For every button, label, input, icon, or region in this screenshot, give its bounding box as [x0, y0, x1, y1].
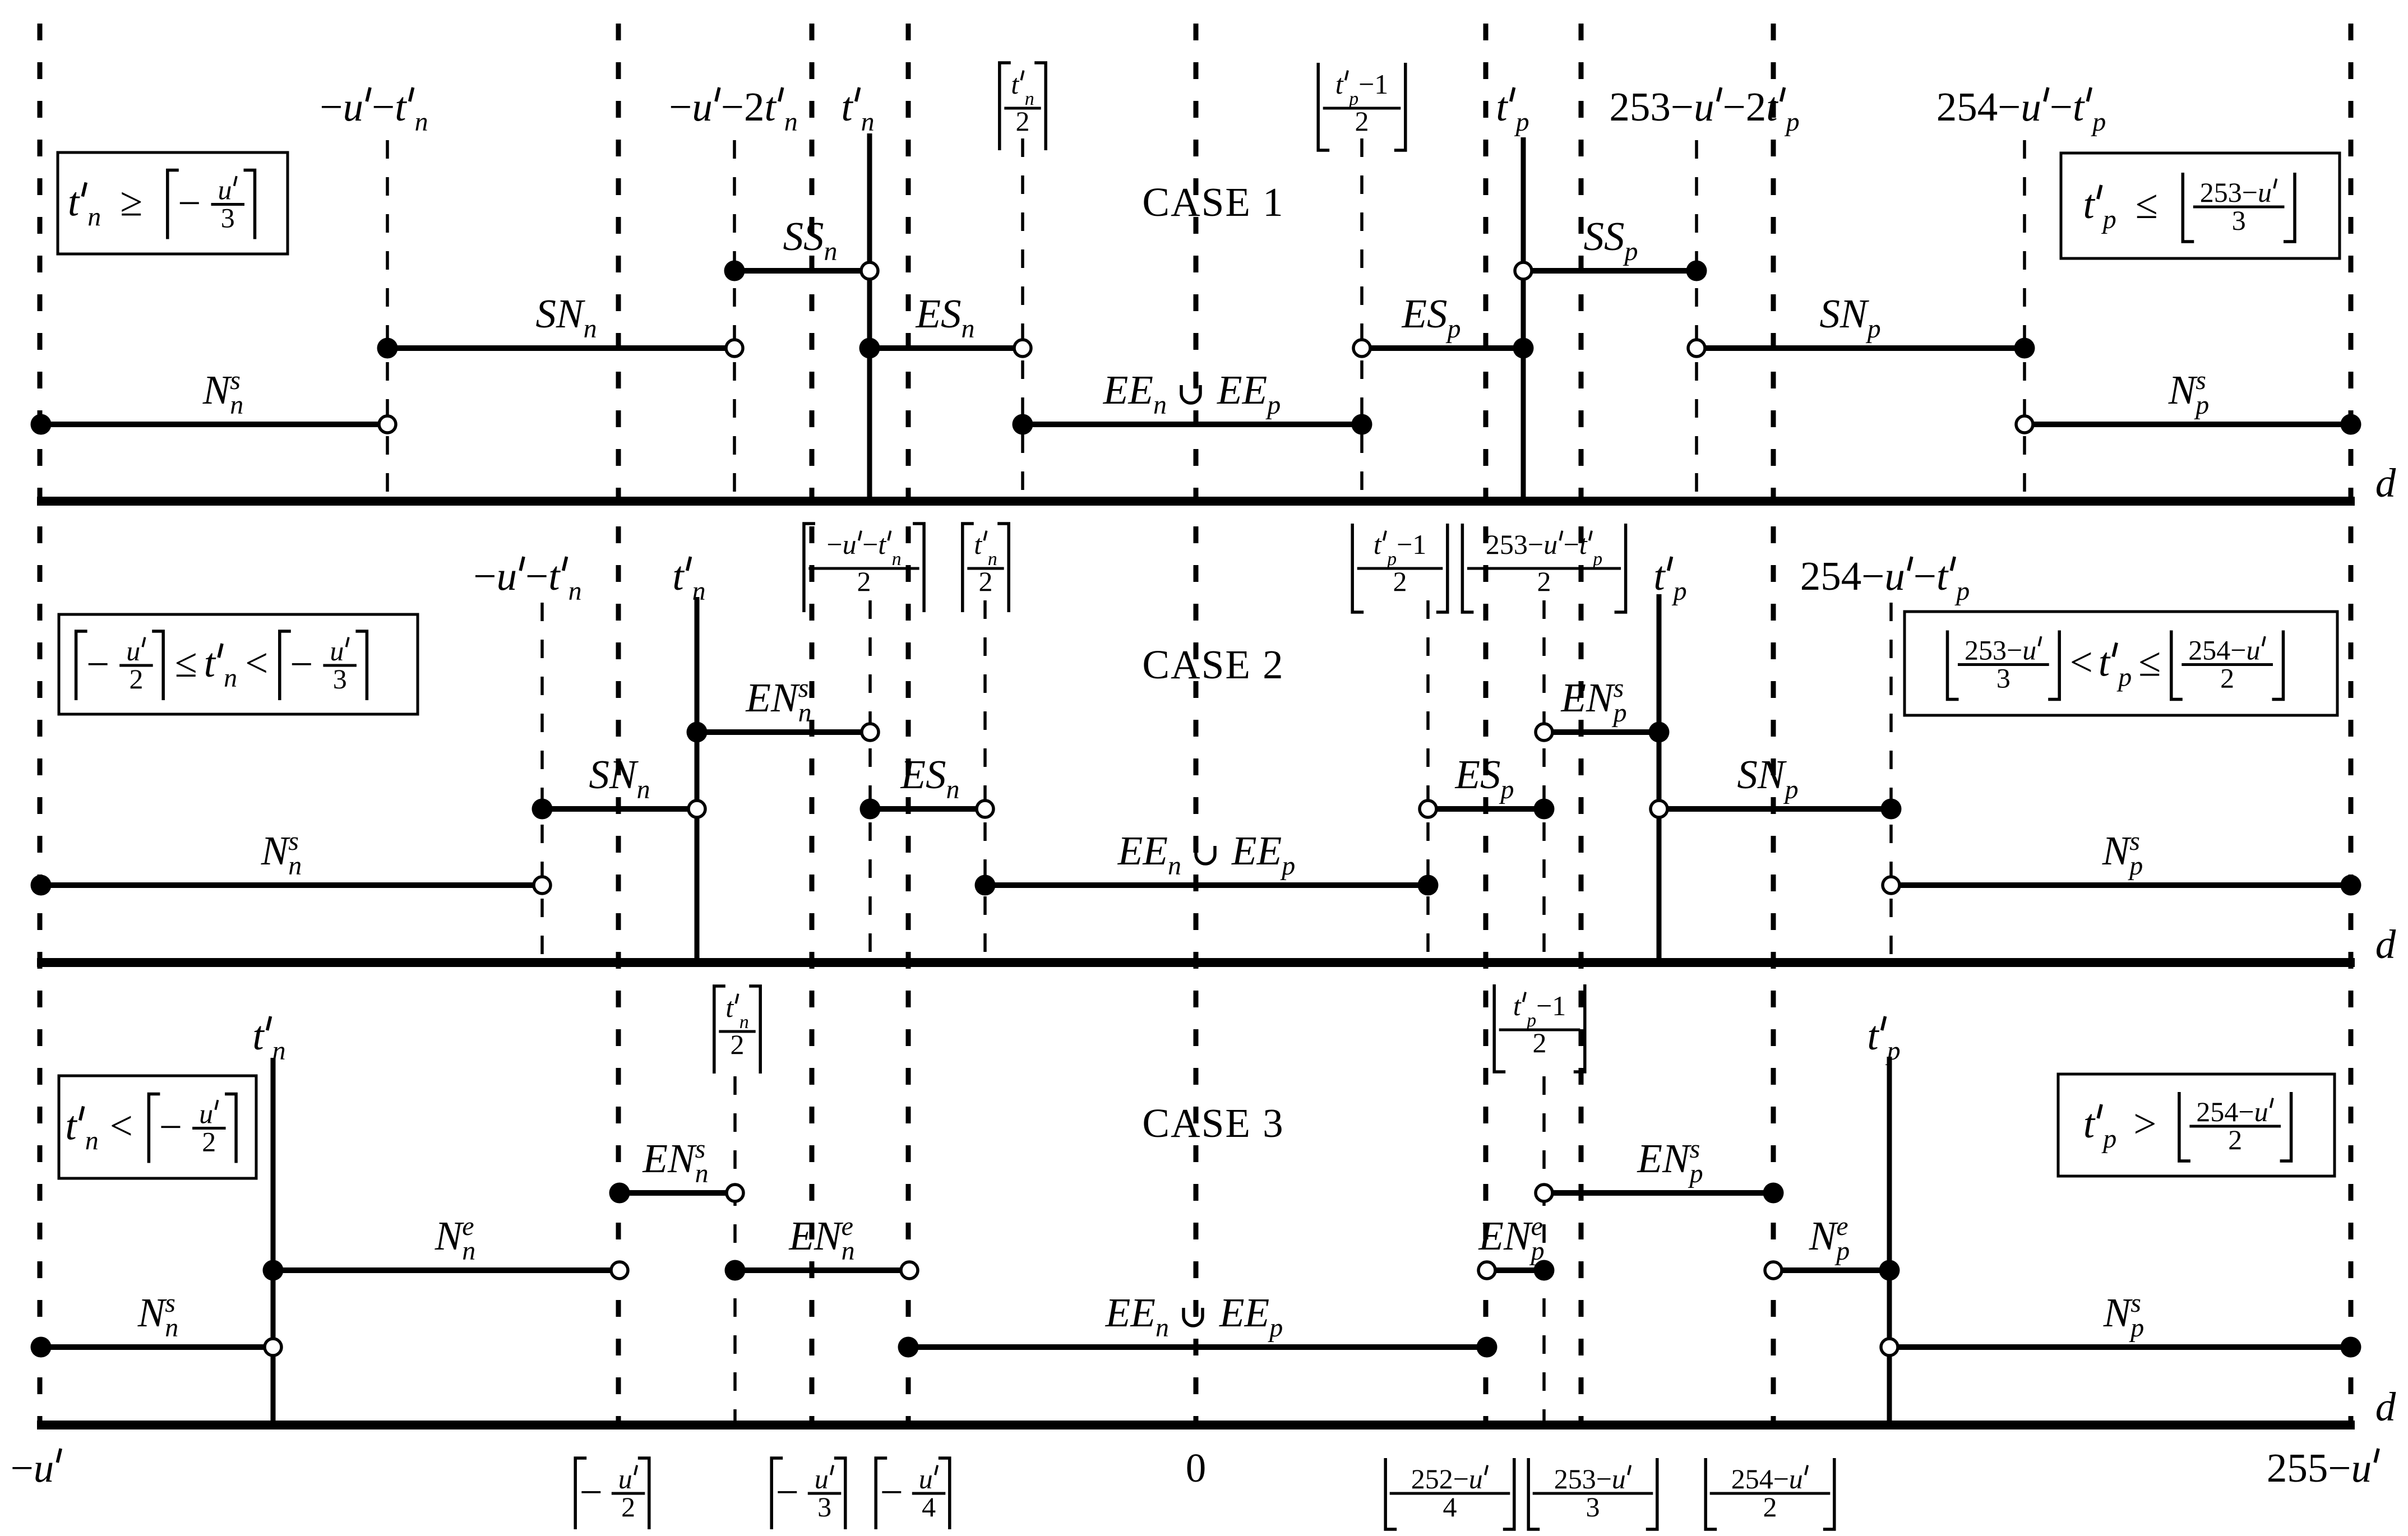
svg-text:u: u — [1789, 1463, 1803, 1495]
svg-text:2: 2 — [1016, 105, 1030, 137]
svg-text:p: p — [2194, 390, 2209, 420]
svg-text:S: S — [803, 214, 824, 259]
svg-text:t: t — [1653, 553, 1666, 599]
svg-text:n: n — [415, 107, 428, 137]
svg-text:3: 3 — [221, 202, 235, 234]
svg-text:N: N — [814, 1213, 844, 1259]
svg-text:2: 2 — [744, 84, 765, 129]
svg-text:u: u — [2254, 1096, 2268, 1127]
svg-text:S: S — [535, 291, 556, 336]
svg-text:254: 254 — [2188, 635, 2230, 666]
svg-text:CASE 1: CASE 1 — [1142, 179, 1284, 225]
svg-text:1: 1 — [1374, 68, 1388, 100]
dashed line ceil(t'_n/2) case1 — [1021, 138, 1024, 501]
svg-text:3: 3 — [817, 1491, 831, 1523]
svg-text:E: E — [1242, 367, 1268, 413]
svg-text:2: 2 — [202, 1126, 216, 1158]
interval EN^s_p case3 — [1536, 1183, 1784, 1204]
interval SN_n case1 — [377, 338, 743, 359]
svg-text:N: N — [1757, 752, 1787, 797]
dashed line 253-u'-2t'_p case1 — [1695, 140, 1698, 501]
svg-text:t: t — [841, 84, 853, 129]
svg-text:−: − — [2328, 1445, 2351, 1491]
svg-text:p: p — [1514, 107, 1529, 137]
svg-text:N: N — [2103, 1290, 2133, 1335]
svg-text:N: N — [2102, 828, 2132, 873]
label ES_p case1 — [1402, 291, 1461, 344]
svg-text:t: t — [395, 84, 407, 129]
svg-text:S: S — [1584, 214, 1605, 259]
label EN^s_p case3 — [1637, 1134, 1703, 1188]
svg-text:p: p — [2101, 205, 2116, 234]
svg-text:u: u — [2021, 84, 2041, 129]
svg-text:t: t — [1011, 68, 1019, 100]
svg-text:≥: ≥ — [120, 179, 142, 225]
svg-text:−: − — [178, 181, 201, 226]
label SS_p case1 — [1584, 214, 1638, 266]
svg-text:p: p — [1672, 576, 1687, 606]
svg-text:n: n — [462, 1236, 475, 1266]
svg-text:N: N — [261, 828, 291, 873]
svg-text:t: t — [252, 1013, 265, 1058]
grid line d=ceil(-u'/2) — [616, 24, 621, 1425]
svg-text:p: p — [1612, 698, 1627, 728]
svg-text:t: t — [1335, 68, 1344, 100]
svg-text:E: E — [1402, 291, 1427, 336]
svg-text:253: 253 — [1486, 529, 1528, 560]
svg-text:254: 254 — [1800, 553, 1862, 599]
svg-text:n: n — [224, 663, 237, 693]
dashed line floor((t'_p-1)/2) case1 — [1360, 138, 1364, 501]
svg-text:t: t — [1867, 1013, 1879, 1058]
interval ES_n case2 — [860, 799, 994, 820]
svg-text:u: u — [1884, 553, 1905, 599]
svg-text:n: n — [842, 1236, 855, 1266]
svg-text:N: N — [556, 291, 586, 336]
label N^s_n case2 — [261, 826, 302, 881]
label N^s_p case2 — [2102, 826, 2143, 881]
svg-text:2: 2 — [979, 566, 993, 597]
svg-text:E: E — [1142, 828, 1168, 873]
svg-text:CASE 2: CASE 2 — [1142, 642, 1284, 687]
svg-text:t: t — [2073, 84, 2085, 129]
dashed line -u'-2t'_n case1 — [733, 140, 736, 501]
svg-text:n: n — [288, 851, 302, 881]
condition box right case3 — [2058, 1074, 2335, 1176]
label SN_n case1 — [535, 291, 597, 344]
svg-text:n: n — [784, 107, 798, 137]
svg-text:≤: ≤ — [2138, 640, 2161, 685]
grid line d=0 — [1194, 24, 1199, 1425]
label floor((253-u'-t'_p)/2) case2 — [1462, 524, 1473, 612]
axis value label ceil(-u'/2) — [575, 1458, 586, 1529]
svg-text:n: n — [637, 775, 650, 804]
svg-text:2: 2 — [731, 1029, 745, 1060]
svg-text:≤: ≤ — [175, 640, 197, 686]
svg-text:−: − — [1564, 529, 1579, 560]
svg-text:3: 3 — [1996, 663, 2010, 694]
svg-text:E: E — [788, 1213, 814, 1259]
axis value label floor((253-u')/3) — [1528, 1458, 1540, 1529]
interval N^e_n case3 — [263, 1260, 628, 1281]
svg-text:−: − — [2230, 635, 2246, 666]
svg-text:2: 2 — [1393, 566, 1407, 597]
label EN^s_n case2 — [745, 673, 811, 728]
interval N^s_p case3 — [1881, 1337, 2361, 1358]
svg-text:−: − — [1358, 68, 1374, 100]
threshold line t'_p case2 — [1657, 594, 1662, 963]
svg-text:E: E — [1244, 1290, 1270, 1335]
interval N^s_p case2 — [1883, 875, 2361, 896]
condition box right case2 — [1905, 612, 2337, 715]
interval SN_p case2 — [1651, 799, 1902, 820]
svg-text:4: 4 — [1443, 1491, 1457, 1523]
svg-text:n: n — [1156, 1313, 1169, 1343]
svg-text:0: 0 — [1186, 1445, 1207, 1491]
svg-text:E: E — [1256, 828, 1282, 873]
axis value label floor((254-u')/2) — [1706, 1458, 1717, 1529]
svg-text:−: − — [1773, 1463, 1789, 1495]
svg-text:S: S — [1480, 752, 1501, 797]
dashed line ceil((-u'-t'_n)/2) case2 — [868, 600, 872, 963]
svg-text:−: − — [880, 1469, 903, 1515]
svg-text:N: N — [770, 675, 801, 720]
svg-text:p: p — [2129, 1313, 2144, 1343]
svg-text:t: t — [68, 179, 80, 225]
svg-text:t: t — [878, 529, 886, 560]
interval EN^s_n case2 — [687, 722, 879, 743]
svg-text:u: u — [34, 1445, 54, 1491]
svg-text:t: t — [1496, 84, 1508, 129]
svg-text:t: t — [65, 1103, 77, 1149]
interval N^s_n case3 — [31, 1337, 282, 1358]
svg-text:2: 2 — [1763, 1491, 1777, 1523]
label EN^s_n case3 — [642, 1134, 708, 1188]
svg-text:d: d — [2375, 460, 2396, 506]
svg-text:t: t — [548, 553, 561, 599]
svg-text:−: − — [1861, 553, 1884, 599]
interval SN_p case1 — [1688, 338, 2035, 359]
svg-text:N: N — [667, 1136, 697, 1181]
svg-text:E: E — [745, 675, 771, 720]
svg-text:−: − — [1998, 84, 2021, 129]
svg-text:254: 254 — [1731, 1463, 1773, 1495]
svg-text:n: n — [798, 698, 812, 728]
svg-text:u: u — [343, 84, 364, 129]
label ceil((-u'-t'_n)/2) case2 — [804, 524, 815, 612]
condition box right case1 — [2061, 153, 2340, 258]
axis d case 2 — [37, 958, 2355, 967]
label ceil(t'_n/2) case3 — [714, 986, 725, 1074]
svg-text:1: 1 — [1412, 529, 1426, 560]
threshold line t'_n case1 — [867, 133, 872, 501]
label SN_p case1 — [1819, 291, 1880, 344]
svg-text:p: p — [1280, 851, 1295, 881]
svg-text:2: 2 — [2220, 663, 2234, 694]
svg-text:4: 4 — [922, 1491, 936, 1523]
svg-text:N: N — [1809, 1213, 1839, 1259]
svg-text:E: E — [916, 291, 941, 336]
svg-text:p: p — [1268, 1313, 1283, 1343]
interval SN_n case2 — [532, 799, 706, 820]
interval N^e_p case3 — [1765, 1260, 1900, 1281]
label EN^s_p case2 — [1560, 673, 1626, 728]
svg-text:254: 254 — [2196, 1096, 2238, 1127]
svg-text:u: u — [2247, 635, 2261, 666]
interval N^s_p case1 — [2016, 414, 2361, 435]
svg-text:−: − — [2007, 635, 2022, 666]
svg-text:u: u — [2351, 1445, 2372, 1491]
svg-text:n: n — [1153, 390, 1167, 420]
svg-text:<: < — [245, 640, 268, 686]
svg-text:N: N — [1586, 675, 1616, 720]
svg-text:n: n — [962, 314, 975, 344]
svg-text:S: S — [1819, 291, 1840, 336]
svg-text:E: E — [1560, 675, 1586, 720]
svg-text:254: 254 — [1936, 84, 1998, 129]
grid line d=floor((252-u')/4) — [1483, 24, 1489, 1425]
svg-text:<: < — [2070, 640, 2093, 685]
interval EE_n u EE_p case3 — [898, 1337, 1498, 1358]
svg-text:u: u — [815, 1463, 829, 1495]
label EE_n u EE_p case1 — [1103, 367, 1281, 420]
svg-text:3: 3 — [333, 663, 347, 695]
svg-text:3: 3 — [2232, 205, 2246, 236]
svg-text:u: u — [199, 1098, 213, 1130]
svg-text:p: p — [2128, 851, 2143, 881]
svg-text:2: 2 — [621, 1491, 635, 1523]
svg-text:t: t — [1579, 529, 1588, 560]
svg-text:255: 255 — [2267, 1445, 2328, 1491]
svg-text:u: u — [618, 1463, 632, 1495]
svg-text:>: > — [2133, 1101, 2156, 1146]
svg-text:u: u — [2258, 177, 2272, 208]
svg-text:u: u — [126, 635, 140, 667]
threshold line t'_n case3 — [271, 1058, 276, 1425]
svg-text:n: n — [272, 1036, 286, 1066]
svg-text:p: p — [1866, 314, 1881, 344]
svg-text:t: t — [672, 553, 685, 599]
label N^s_n case3 — [137, 1288, 179, 1343]
svg-text:N: N — [137, 1290, 168, 1335]
svg-text:−: − — [1596, 1463, 1612, 1495]
svg-text:E: E — [1455, 752, 1481, 797]
svg-text:E: E — [1219, 1290, 1245, 1335]
svg-text:2: 2 — [2228, 1124, 2242, 1155]
label ceil(t'_n/2) case1 — [1000, 63, 1011, 150]
svg-text:p: p — [1785, 107, 1800, 137]
svg-text:p: p — [1688, 1159, 1703, 1188]
svg-text:u: u — [1612, 1463, 1626, 1495]
grid line d=ceil(-u'/4) — [906, 24, 911, 1425]
svg-text:t: t — [1936, 553, 1949, 599]
svg-text:252: 252 — [1411, 1463, 1453, 1495]
svg-text:u: u — [2022, 635, 2036, 666]
svg-text:−: − — [721, 84, 744, 129]
svg-text:n: n — [892, 549, 902, 570]
grid line d=-u' — [38, 24, 43, 1425]
dashed line 254-u'-t'_p case2 — [1889, 603, 1893, 963]
svg-text:253: 253 — [2200, 177, 2242, 208]
grid line d=ceil(-u'/3) — [810, 24, 815, 1425]
svg-text:2: 2 — [130, 663, 144, 695]
label SS_n case1 — [783, 214, 838, 266]
label ES_n case2 — [900, 752, 960, 804]
svg-text:−: − — [11, 1445, 34, 1491]
axis value label ceil(-u'/4) — [876, 1458, 887, 1529]
condition box left case2 — [59, 614, 418, 714]
svg-text:p: p — [1783, 775, 1799, 804]
axis value label floor((252-u')/4) — [1385, 1458, 1397, 1529]
svg-text:p: p — [2101, 1124, 2116, 1154]
svg-text:−: − — [290, 641, 313, 687]
svg-text:S: S — [941, 291, 962, 336]
svg-text:p: p — [1885, 1036, 1901, 1066]
svg-text:t: t — [2083, 1101, 2096, 1146]
label EE_n u EE_p case2 — [1117, 828, 1295, 881]
svg-text:u: u — [692, 84, 713, 129]
svg-text:t: t — [1513, 990, 1522, 1021]
label floor((t'_p-1)/2) case1 — [1318, 63, 1329, 150]
interval N^s_n case1 — [31, 414, 396, 435]
svg-text:E: E — [900, 752, 926, 797]
svg-text:−: − — [525, 553, 548, 599]
svg-text:N: N — [1503, 1213, 1533, 1259]
svg-text:E: E — [642, 1136, 668, 1181]
svg-text:p: p — [1954, 576, 1970, 606]
svg-text:−: − — [1723, 84, 1746, 129]
grid line d=255-u' — [2349, 24, 2354, 1425]
svg-text:E: E — [1127, 367, 1153, 413]
svg-text:p: p — [1592, 549, 1602, 570]
svg-text:u: u — [1543, 529, 1557, 560]
svg-text:n: n — [569, 576, 582, 606]
svg-text:253: 253 — [1554, 1463, 1596, 1495]
svg-text:n: n — [824, 237, 838, 266]
label floor((t'_p-1)/2) case2 — [1352, 524, 1364, 612]
dashed line -u'-t'_n case2 — [540, 603, 544, 963]
svg-text:CASE 3: CASE 3 — [1142, 1100, 1284, 1146]
svg-text:u: u — [1694, 84, 1714, 129]
svg-text:t: t — [204, 640, 216, 686]
svg-text:t: t — [1374, 529, 1382, 560]
svg-text:2: 2 — [857, 566, 871, 597]
label EE_n u EE_p case3 — [1105, 1290, 1283, 1343]
label ES_p case2 — [1455, 752, 1514, 804]
svg-text:S: S — [783, 214, 804, 259]
svg-text:t: t — [2099, 640, 2111, 685]
label N^e_n case3 — [435, 1211, 476, 1266]
svg-text:u: u — [1469, 1463, 1483, 1495]
svg-text:−: − — [1536, 990, 1552, 1021]
label EN^e_p case3 — [1478, 1211, 1544, 1266]
svg-text:E: E — [1478, 1213, 1504, 1259]
svg-text:−: − — [2242, 177, 2258, 208]
interval EN^e_p case3 — [1478, 1260, 1555, 1281]
svg-text:E: E — [1231, 828, 1257, 873]
svg-text:t: t — [1766, 84, 1778, 129]
svg-text:n: n — [1168, 851, 1181, 881]
interval ES_p case2 — [1420, 799, 1555, 820]
threshold line t'_p case1 — [1521, 137, 1526, 501]
label ceil(t'_n/2) case2 — [963, 524, 974, 612]
svg-text:t: t — [974, 529, 982, 560]
svg-text:≤: ≤ — [2136, 182, 2158, 227]
grid line d=floor((254-u')/2) — [1771, 24, 1776, 1425]
svg-text:N: N — [1662, 1136, 1692, 1181]
svg-text:d: d — [2375, 922, 2396, 967]
svg-text:u: u — [218, 174, 232, 206]
condition box left case3 — [59, 1076, 256, 1178]
svg-text:p: p — [1529, 1236, 1545, 1266]
svg-text:−: − — [2050, 84, 2073, 129]
dashed line -u'-t'_n case1 — [386, 140, 389, 501]
dashed line floor((t'_p-1)/2) case3 — [1542, 1076, 1546, 1425]
svg-text:−: − — [473, 553, 496, 599]
svg-text:N: N — [202, 367, 233, 413]
svg-text:u: u — [919, 1463, 933, 1495]
svg-text:−: − — [2238, 1096, 2254, 1127]
svg-text:n: n — [165, 1313, 178, 1343]
svg-text:−: − — [1528, 529, 1543, 560]
svg-text:n: n — [695, 1159, 709, 1188]
svg-text:p: p — [1499, 775, 1514, 804]
svg-text:S: S — [1737, 752, 1758, 797]
interval EE_n u EE_p case1 — [1013, 414, 1372, 435]
interval EE_n u EE_p case2 — [975, 875, 1439, 896]
svg-text:t: t — [725, 992, 734, 1023]
svg-text:p: p — [1834, 1236, 1850, 1266]
condition box left case1 — [58, 152, 288, 254]
svg-text:3: 3 — [1586, 1491, 1600, 1523]
label N^s_p case1 — [2168, 366, 2210, 420]
svg-text:p: p — [2091, 107, 2106, 137]
label N^s_p case3 — [2103, 1288, 2144, 1343]
svg-text:t: t — [765, 84, 777, 129]
interval EN^s_n case3 — [609, 1183, 744, 1204]
svg-text:1: 1 — [1552, 990, 1566, 1021]
svg-text:N: N — [435, 1213, 465, 1259]
svg-text:p: p — [1265, 390, 1281, 420]
label floor((t'_p-1)/2) case3 — [1494, 984, 1505, 1072]
label SN_p case2 — [1737, 752, 1798, 804]
grid line d=floor((253-u')/3) — [1579, 24, 1584, 1425]
svg-text:N: N — [609, 752, 639, 797]
svg-text:d: d — [2375, 1384, 2396, 1429]
dashed line ceil(t'_n/2) case2 — [983, 600, 987, 963]
svg-text:p: p — [1446, 314, 1461, 344]
svg-text:E: E — [1130, 1290, 1156, 1335]
svg-text:E: E — [1103, 367, 1129, 413]
threshold line t'_n case2 — [695, 597, 700, 963]
label ES_n case1 — [916, 291, 975, 344]
svg-text:−: − — [159, 1104, 182, 1150]
svg-text:u: u — [843, 529, 857, 560]
svg-text:−: − — [1453, 1463, 1469, 1495]
interval EN^e_n case3 — [725, 1260, 918, 1281]
svg-text:n: n — [861, 107, 875, 137]
svg-text:S: S — [1604, 214, 1625, 259]
interval SS_p case1 — [1515, 261, 1707, 281]
dashed line ceil(t'_n/2) case3 — [733, 1076, 737, 1425]
axis d case 1 — [37, 497, 2355, 506]
dashed line floor((253-u'-t'_p)/2) case2 — [1542, 600, 1546, 963]
svg-text:253: 253 — [1609, 84, 1671, 129]
axis value label ceil(-u'/3) — [771, 1458, 783, 1529]
svg-text:2: 2 — [1746, 84, 1767, 129]
label EN^e_n case3 — [788, 1211, 854, 1266]
svg-text:−: − — [1914, 553, 1936, 599]
